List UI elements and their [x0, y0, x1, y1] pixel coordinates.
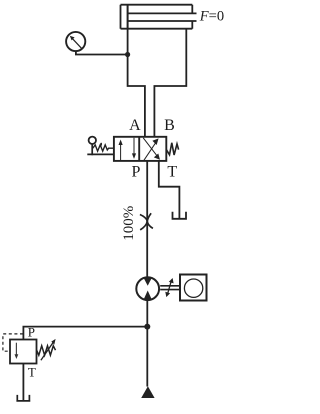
svg-text:T: T: [28, 365, 36, 380]
svg-text:P: P: [28, 324, 35, 339]
svg-text:100%: 100%: [121, 206, 137, 241]
svg-text:P: P: [131, 163, 140, 180]
svg-text:A: A: [129, 117, 141, 134]
svg-text:T: T: [167, 163, 177, 180]
svg-text:B: B: [164, 117, 175, 134]
svg-text:F=0: F=0: [199, 9, 224, 25]
